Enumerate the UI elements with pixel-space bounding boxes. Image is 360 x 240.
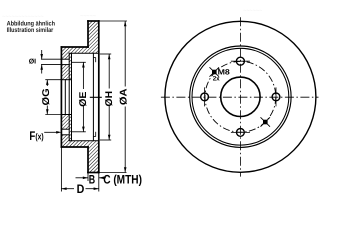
hub flange hatched body bbox=[61, 21, 99, 173]
inner vertical of friction ring bbox=[92, 53, 94, 140]
svg-text:B: B bbox=[89, 172, 95, 186]
step details bbox=[93, 58, 95, 137]
friction block upper bbox=[88, 21, 99, 53]
hat bottom edge bbox=[61, 146, 88, 148]
section centerline tick bbox=[90, 96, 102, 98]
band/block bottom edges bbox=[69, 52, 99, 54]
block left faces bbox=[87, 21, 89, 47]
B dimension bbox=[76, 177, 89, 179]
OE extension lines bbox=[72, 61, 86, 63]
svg-text:ØG: ØG bbox=[41, 88, 52, 106]
M8 thread markers bbox=[210, 67, 271, 126]
arrowheads bbox=[40, 21, 126, 190]
svg-text:~~~~~~: ~~~~~~ bbox=[243, 8, 262, 14]
svg-text:ØE: ØE bbox=[78, 91, 89, 107]
bore counterbore edge bbox=[64, 80, 66, 115]
D dimension bbox=[61, 188, 74, 190]
svg-text:~~~~~~~~~~~~~: ~~~~~~~~~~~~~ bbox=[2, 14, 44, 20]
OH extension lines bbox=[100, 53, 111, 55]
bolt hole edges bbox=[61, 58, 69, 60]
OE dimension line bbox=[82, 62, 84, 89]
dim D arrows bbox=[61, 187, 66, 190]
bolt hole voids bbox=[61, 59, 70, 64]
B/D extension lines bbox=[60, 147, 62, 192]
pilot end face bbox=[71, 53, 73, 140]
flange upper part bbox=[61, 47, 69, 80]
svg-text:Illustration similar: Illustration similar bbox=[7, 27, 54, 34]
hat top edge bbox=[61, 46, 88, 48]
F(x) leader bbox=[44, 131, 59, 133]
bolt circle (dash-dot) bbox=[205, 61, 276, 132]
dim OA arrows bbox=[124, 21, 127, 26]
bolt holes bbox=[201, 57, 280, 136]
friction inner circle bbox=[190, 46, 291, 147]
flange inner face bbox=[68, 53, 70, 140]
left face of flange bbox=[60, 47, 62, 147]
thread hole marker square (lower right) bbox=[263, 120, 268, 125]
OA dimension line bbox=[124, 21, 126, 87]
F(x) leader arrow bbox=[56, 131, 61, 134]
outline: thick contour bbox=[61, 21, 98, 173]
outer circle bbox=[165, 21, 316, 172]
dim OG arrows bbox=[46, 80, 49, 85]
svg-text:ØI: ØI bbox=[29, 57, 36, 65]
OG dimension line bbox=[46, 80, 48, 86]
svg-text:ØH: ØH bbox=[104, 91, 115, 107]
OA extension lines bbox=[99, 20, 127, 22]
svg-text:~~~~~: ~~~~~ bbox=[80, 14, 96, 20]
pilot stub lower bbox=[69, 115, 71, 141]
centerlines bbox=[161, 17, 319, 176]
OH dimension line bbox=[108, 54, 110, 89]
OI dimension line bbox=[41, 50, 43, 59]
svg-text:ØA: ØA bbox=[118, 88, 129, 105]
hat band upper bbox=[61, 47, 88, 53]
dim OE arrows bbox=[82, 62, 85, 67]
pilot stub upper bbox=[69, 53, 71, 79]
center bore bbox=[221, 77, 260, 116]
svg-text:C (MTH): C (MTH) bbox=[103, 172, 142, 186]
svg-text:D: D bbox=[77, 182, 85, 196]
friction block lower bbox=[88, 141, 99, 173]
block top / bottom edges (OD) bbox=[88, 20, 99, 22]
bore edges bbox=[61, 79, 71, 81]
flange lower part bbox=[61, 115, 69, 148]
OG extension lines bbox=[45, 79, 61, 81]
faint watermark remnants bbox=[2, 8, 262, 20]
dim OH arrows bbox=[108, 54, 111, 59]
inner edges: medium bbox=[61, 53, 98, 140]
hat band lower bbox=[61, 141, 88, 147]
dim OI arrows bbox=[40, 54, 43, 59]
dim B arrows bbox=[83, 177, 88, 180]
svg-text:(x): (x) bbox=[35, 132, 43, 142]
hub outer circle bbox=[192, 48, 289, 145]
thread hole marker square (upper left) bbox=[212, 70, 217, 75]
hole ticks bbox=[231, 60, 250, 62]
svg-text:2x: 2x bbox=[213, 76, 220, 83]
block right face bbox=[98, 21, 100, 173]
OI extension lines bbox=[41, 58, 61, 60]
